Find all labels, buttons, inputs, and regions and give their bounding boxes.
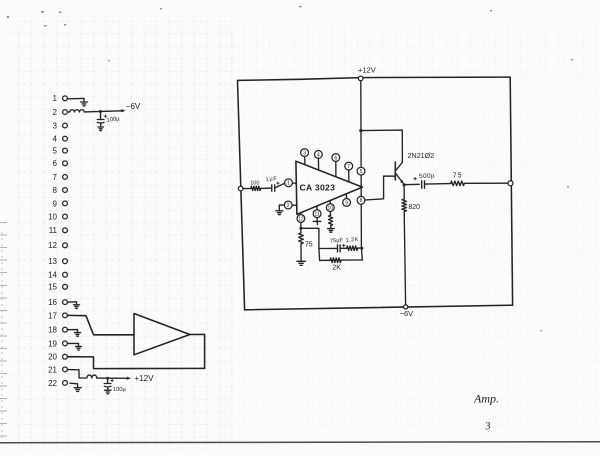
svg-text:3: 3	[303, 151, 306, 157]
svg-text:100µ: 100µ	[113, 387, 127, 393]
connector pin 16	[48, 298, 67, 307]
wire base to pin8	[365, 176, 395, 200]
svg-text:11: 11	[314, 212, 319, 218]
svg-text:2: 2	[53, 108, 58, 117]
resistor below pin 10	[328, 212, 335, 233]
svg-text:75: 75	[453, 173, 463, 180]
scan specks	[7, 6, 573, 331]
amplifier triangle (left block)	[134, 314, 190, 355]
svg-text:8: 8	[360, 198, 363, 204]
svg-text:7: 7	[347, 164, 350, 170]
svg-text:−6V: −6V	[126, 102, 141, 111]
terminal -6V (bottom edge)	[404, 305, 408, 309]
wire rail1 middle	[340, 247, 346, 249]
svg-text:100: 100	[250, 181, 259, 187]
node emitter junction	[403, 183, 406, 186]
wire capacitor to resistor 75	[425, 183, 451, 186]
svg-text:CA 3023: CA 3023	[300, 183, 336, 193]
ground (pin 19)	[76, 343, 82, 350]
resistor 100 (input)	[251, 186, 261, 190]
svg-text:8: 8	[53, 186, 58, 195]
svg-text:2N21Ø2: 2N21Ø2	[408, 151, 435, 160]
wire pin21 to inductor	[67, 370, 86, 378]
svg-text:4: 4	[53, 135, 58, 144]
ground mark below pin 11	[313, 218, 321, 225]
svg-text:2: 2	[287, 203, 290, 209]
capacitor 500u (output coupling)	[413, 177, 424, 188]
enclosure box (amplifier stage)	[238, 77, 513, 310]
wire inductor to +12V arrow	[97, 377, 128, 379]
node pin12 junction	[299, 222, 302, 229]
terminal output (right edge)	[508, 181, 513, 186]
wire pin2 to inductor	[67, 111, 69, 113]
connector pin 7	[53, 173, 68, 182]
transistor Q 2N2102	[395, 162, 403, 184]
connector pin 17	[48, 311, 67, 320]
connector pin 8	[53, 186, 68, 195]
node pin21/capacitor junction	[106, 377, 109, 380]
pin 2 (CA3023)	[284, 201, 296, 209]
ground (pin 22)	[74, 387, 81, 391]
capacitor 100u (pin21 bypass)	[104, 378, 113, 394]
connector pin 5	[53, 147, 68, 156]
pin 6 (CA3023)	[332, 154, 340, 177]
wire inductor to -6V arrow	[84, 111, 122, 112]
svg-text:7: 7	[53, 173, 58, 182]
svg-text:4: 4	[317, 152, 320, 158]
wire +12V supply vertical	[361, 81, 363, 260]
svg-text:1.2K: 1.2K	[345, 237, 359, 244]
connector pin 14	[48, 271, 67, 280]
capacitor 75uF (feedback)	[338, 244, 346, 252]
wire rail2	[320, 259, 330, 261]
svg-text:19: 19	[48, 339, 57, 348]
op-amp CA3023	[296, 161, 363, 214]
svg-text:1: 1	[287, 181, 290, 187]
connector pin 9	[53, 199, 68, 208]
connector pin 15	[48, 283, 67, 292]
svg-text:+12V: +12V	[135, 374, 155, 383]
pin 10 (CA3023)	[326, 200, 334, 211]
bottom scan edge line	[0, 442, 600, 443]
svg-text:13: 13	[48, 257, 57, 266]
connector pin 18	[48, 326, 67, 335]
pin 8 (CA3023)	[357, 196, 365, 204]
pin 4 (CA3023)	[315, 151, 323, 171]
node pin2/capacitor junction	[99, 110, 102, 113]
svg-text:17: 17	[48, 311, 57, 320]
svg-text:15: 15	[48, 283, 57, 292]
pin 11 (CA3023)	[313, 206, 321, 218]
terminal +12V	[358, 76, 363, 81]
connector pin 19	[48, 339, 67, 348]
resistor 75 (pin12 to ground)	[297, 228, 306, 265]
svg-text:18: 18	[48, 326, 57, 335]
wire pin19 stub	[67, 342, 78, 344]
pin 7 (CA3023)	[345, 162, 353, 182]
wire emitter to capacitor	[404, 183, 419, 185]
svg-text:9: 9	[345, 200, 348, 206]
wire rail2 right	[341, 259, 362, 261]
pin 12 (CA3023)	[297, 213, 305, 223]
ground (pin 18)	[75, 330, 81, 337]
svg-text:3: 3	[53, 121, 58, 130]
svg-text:5: 5	[360, 169, 363, 175]
pin 9 (CA3023)	[343, 194, 351, 206]
svg-text:16: 16	[48, 298, 57, 307]
terminal input (left edge)	[238, 186, 243, 191]
wire pin1 to ground	[67, 97, 84, 99]
svg-text:Amp.: Amp.	[473, 392, 499, 406]
svg-text:11: 11	[49, 226, 58, 235]
connector pin 6	[53, 159, 68, 168]
wire 820 to -6V terminal	[404, 212, 405, 305]
capacitor 100u (pin2 bypass)	[97, 112, 107, 131]
svg-text:+12V: +12V	[358, 66, 376, 75]
wire rail1 left	[319, 247, 337, 249]
svg-text:5: 5	[53, 147, 58, 156]
wire capacitor to pin1	[275, 183, 285, 188]
wire pin22 stub	[70, 383, 78, 387]
svg-text:−6V: −6V	[400, 309, 414, 318]
svg-text:12: 12	[48, 241, 57, 250]
pin 3 (CA3023)	[301, 149, 309, 165]
wire pin16 stub	[67, 301, 76, 303]
wire rail1 right	[358, 247, 362, 249]
wire pin12 to rail left	[301, 228, 320, 260]
pin 5 (CA3023)	[357, 167, 365, 175]
node supply branch	[359, 129, 362, 132]
wire pin18 stub	[67, 329, 77, 331]
svg-text:12: 12	[298, 216, 304, 222]
connector pin 11	[49, 226, 68, 235]
svg-text:9: 9	[53, 199, 58, 208]
svg-text:10: 10	[48, 212, 57, 221]
connector pin 21	[48, 365, 67, 374]
svg-text:6: 6	[334, 155, 337, 161]
connector pin 3	[53, 121, 68, 130]
pin 1 (CA3023)	[285, 179, 297, 187]
wire pin17 to amplifier input	[67, 315, 134, 334]
ground (pin 1)	[81, 98, 88, 105]
resistor 1.2K (feedback)	[347, 246, 358, 250]
ground (pin 2)	[276, 210, 283, 214]
resistor 2K (feedback)	[330, 258, 341, 263]
connector pin 1	[53, 94, 68, 103]
svg-text:1: 1	[53, 94, 58, 103]
svg-text:500µ: 500µ	[419, 172, 435, 180]
wire input to resistor	[243, 188, 251, 190]
capacitor 1uF (input coupling)	[272, 182, 280, 192]
svg-text:75: 75	[305, 241, 313, 248]
inductor (pin2 RF choke)	[70, 110, 85, 112]
wire resistor to output terminal	[464, 182, 508, 184]
inductor (pin21 choke)	[87, 375, 97, 378]
wire supply to collector	[361, 130, 403, 162]
svg-text:22: 22	[48, 379, 57, 388]
svg-text:10: 10	[328, 206, 334, 212]
connector pin 20	[48, 353, 67, 362]
resistor 820 (emitter)	[402, 199, 407, 211]
connector pin 2	[53, 108, 68, 117]
wire pin2 to ground	[279, 205, 284, 210]
left margin scan marks	[0, 223, 7, 446]
svg-text:6: 6	[53, 159, 58, 168]
wire resistor to capacitor	[261, 187, 272, 189]
wire emitter resistor top	[403, 185, 405, 199]
connector pin 22	[48, 379, 67, 388]
svg-text:14: 14	[48, 271, 57, 280]
ground (pin 16)	[74, 302, 80, 309]
resistor 75 (output)	[451, 181, 465, 186]
svg-text:75µF: 75µF	[330, 238, 344, 245]
svg-text:820: 820	[408, 204, 420, 211]
svg-text:1µF: 1µF	[265, 176, 277, 183]
wire pin20 to feedback rail	[67, 357, 204, 369]
connector pin 12	[48, 241, 67, 250]
wire amplifier output feedback	[190, 334, 205, 368]
connector pin 13	[48, 257, 67, 266]
connector pin 10	[48, 212, 67, 221]
connector pin 4	[53, 135, 68, 144]
node rail junction	[360, 247, 363, 250]
svg-text:21: 21	[48, 365, 57, 374]
svg-text:2K: 2K	[332, 264, 341, 271]
svg-text:20: 20	[48, 353, 57, 362]
